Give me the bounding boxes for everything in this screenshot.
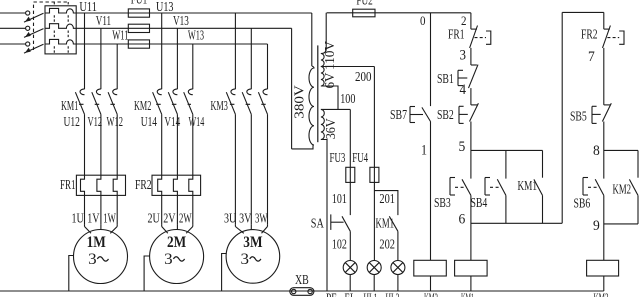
wire xyxy=(176,114,178,175)
svg-text:110V: 110V xyxy=(322,41,337,70)
svg-text:SB1: SB1 xyxy=(437,71,454,86)
svg-text:KM2: KM2 xyxy=(134,98,151,113)
svg-text:KM1: KM1 xyxy=(461,291,474,297)
svg-text:3W: 3W xyxy=(255,211,268,226)
plug contact circle pole 1 xyxy=(26,11,30,15)
wire 102 SA to lamp EL xyxy=(349,231,351,260)
breaker pole 3 thermal-magnetic element xyxy=(45,39,76,44)
wire node 4 xyxy=(470,88,472,105)
FR1 heater element xyxy=(97,175,101,225)
node 9 horizontal xyxy=(604,223,638,225)
FR1 heater element xyxy=(81,175,85,225)
wire coil KM3 to return xyxy=(603,276,605,291)
svg-text:SB5: SB5 xyxy=(570,109,587,124)
wire 202 xyxy=(397,231,399,260)
button SB1 (NC) xyxy=(471,64,477,66)
node 6 horizontal xyxy=(471,222,562,224)
svg-text:W12: W12 xyxy=(107,114,124,129)
svg-text:36V: 36V xyxy=(323,118,338,139)
wire rail to node 6 (right feeder) xyxy=(561,12,563,223)
svg-text:3: 3 xyxy=(241,251,250,268)
branch KM2 aux wire xyxy=(637,150,639,177)
switch SA xyxy=(330,214,332,230)
3-phase supply line L3 xyxy=(0,43,26,45)
linkage drop to breaker mechanism xyxy=(53,2,55,6)
wire coil KM1 to return xyxy=(470,276,472,291)
KM1 linkage dashes xyxy=(79,103,115,105)
button SB7 xyxy=(409,107,411,123)
wire node 7 column top xyxy=(603,12,605,29)
branch wire 201 to KM1 contact xyxy=(374,191,398,216)
branch SB4 lower wire xyxy=(505,195,507,223)
wire drop to KM1 pole 2 xyxy=(100,28,102,89)
node 5 horizontal xyxy=(471,149,543,151)
svg-text:3V: 3V xyxy=(239,211,252,226)
svg-text:5: 5 xyxy=(459,139,466,155)
svg-text:W11: W11 xyxy=(112,28,128,43)
svg-text:6: 6 xyxy=(459,212,466,228)
svg-text:1M: 1M xyxy=(87,234,106,251)
contact FR1 (NC thermal) xyxy=(471,28,477,30)
3-phase supply line L2 xyxy=(0,27,26,29)
circuit breaker QF box xyxy=(45,6,76,54)
wire xyxy=(234,114,236,224)
plug contact circle pole 2 xyxy=(26,26,30,30)
wire node 1 down to KM2 coil xyxy=(430,122,432,261)
branch SB4 wire xyxy=(505,150,507,178)
wire 36V top terminal xyxy=(321,108,350,110)
wire 36V bottom return to earth bus xyxy=(321,140,327,292)
primary feed wire from V13 xyxy=(291,28,293,149)
fuse FU1 (three fuses) xyxy=(128,9,149,17)
bottom earth-return bus xyxy=(0,290,604,292)
wire node 6 column xyxy=(470,195,472,260)
svg-text:V11: V11 xyxy=(96,13,111,28)
wire node 9 column xyxy=(603,195,605,260)
wire xyxy=(116,114,118,175)
svg-text:FU4: FU4 xyxy=(352,150,368,165)
wire 110V top terminal to control rail xyxy=(321,13,326,54)
svg-text:1W: 1W xyxy=(103,211,116,226)
svg-text:FU1: FU1 xyxy=(131,0,147,7)
thermal relay FR2 heater box xyxy=(152,175,201,195)
svg-text:2W: 2W xyxy=(179,211,192,226)
fuse FU3 xyxy=(346,167,355,182)
wire drop to KM3 pole 3 xyxy=(267,44,269,89)
svg-text:V13: V13 xyxy=(173,13,189,28)
wire drop to KM2 pole 2 xyxy=(176,28,178,89)
svg-text:V12: V12 xyxy=(88,114,103,129)
svg-text:2U: 2U xyxy=(148,211,161,226)
svg-text:SB6: SB6 xyxy=(574,196,591,211)
svg-text:200: 200 xyxy=(355,69,372,84)
svg-text:HL1: HL1 xyxy=(364,291,378,297)
svg-text:3: 3 xyxy=(88,251,97,268)
wire drop to KM1 pole 1 xyxy=(84,13,86,89)
transformer primary winding 380V xyxy=(309,66,314,145)
button SB6 (NO) xyxy=(595,179,604,195)
svg-text:SB7: SB7 xyxy=(390,107,407,122)
branch KM2 aux lower wire xyxy=(637,195,639,224)
motor 2M frame earth wire xyxy=(144,256,150,291)
FR2 heater element xyxy=(189,175,193,225)
contactor KM1 main contacts xyxy=(80,89,85,95)
rail segment to FR2 xyxy=(562,11,604,13)
wire drop to KM2 pole 3 xyxy=(192,44,194,89)
contactor KM3 main contacts xyxy=(231,89,236,95)
motor 2M leads xyxy=(161,225,163,227)
lamp HL2 xyxy=(391,261,405,275)
control rail from FU2 xyxy=(327,12,471,14)
svg-text:FR2: FR2 xyxy=(135,177,152,192)
thermal relay FR1 heater box xyxy=(76,175,125,195)
svg-text:KM1: KM1 xyxy=(518,178,538,193)
switch linkage dashed line xyxy=(34,2,70,50)
svg-text:3U: 3U xyxy=(224,211,237,226)
svg-text:PE: PE xyxy=(326,291,337,297)
svg-text:380V: 380V xyxy=(292,85,307,119)
KM2 linkage dashes xyxy=(156,103,191,105)
KM3 linkage dashes xyxy=(230,103,266,105)
svg-text:W13: W13 xyxy=(188,28,204,43)
svg-text:XB: XB xyxy=(295,272,309,287)
branch KM1 aux lower wire xyxy=(542,195,544,223)
motor 2M xyxy=(150,230,204,284)
svg-text:KM3: KM3 xyxy=(594,291,609,297)
wire node 3 xyxy=(470,48,472,65)
svg-text:V14: V14 xyxy=(164,114,180,129)
FR2 heater element xyxy=(158,175,162,225)
contact KM1 aux (lamp circuit) xyxy=(389,216,398,231)
svg-text:KM2: KM2 xyxy=(424,291,438,297)
svg-text:EL: EL xyxy=(345,291,356,297)
contact KM1 aux (seal-in) xyxy=(534,179,543,195)
FR1 heater element xyxy=(113,175,117,225)
coil KM3 xyxy=(587,260,619,276)
wire node 2 xyxy=(470,13,472,29)
wire xyxy=(100,114,102,175)
wire xyxy=(84,114,86,175)
wire 200 down through FU4 xyxy=(373,67,375,261)
node 8 horizontal xyxy=(604,149,638,151)
svg-text:4: 4 xyxy=(460,82,467,98)
terminal link XB xyxy=(290,288,314,296)
transformer core xyxy=(317,45,319,142)
coil KM2 xyxy=(414,260,447,276)
svg-text:U14: U14 xyxy=(141,114,157,129)
breaker pole 2 thermal-magnetic element xyxy=(45,24,76,29)
svg-text:3: 3 xyxy=(164,251,173,268)
motor 3M leads xyxy=(234,225,236,227)
button SB5 (NC) xyxy=(604,104,611,106)
wire drop to KM2 pole 1 xyxy=(161,13,163,89)
primary bottom connection xyxy=(292,145,313,149)
svg-text:FU2: FU2 xyxy=(356,0,372,8)
svg-text:W14: W14 xyxy=(189,114,205,129)
contact FR2 (NC thermal) xyxy=(604,28,610,30)
wire coil KM2 to return xyxy=(430,276,432,291)
svg-text:2M: 2M xyxy=(167,234,186,251)
svg-text:SB3: SB3 xyxy=(434,195,451,210)
svg-text:201: 201 xyxy=(379,191,395,206)
svg-text:1U: 1U xyxy=(72,211,85,226)
branch KM1 aux wire xyxy=(542,150,544,177)
wire tap 200 (110V/6V junction) xyxy=(321,66,375,68)
plug contact circle pole 3 xyxy=(26,42,30,46)
svg-text:U11: U11 xyxy=(79,0,97,14)
wire node 5 column xyxy=(470,122,472,179)
contact KM2 aux (seal-in) xyxy=(629,179,638,195)
svg-text:HL2: HL2 xyxy=(386,291,400,297)
svg-text:FR2: FR2 xyxy=(581,26,598,41)
svg-text:3: 3 xyxy=(460,48,467,64)
switch blade with arrowhead pole 1 xyxy=(24,13,44,22)
wire node 8 column xyxy=(603,122,605,179)
svg-text:KM1: KM1 xyxy=(376,216,395,231)
svg-text:100: 100 xyxy=(340,91,355,106)
wire node 0 column xyxy=(430,13,432,106)
svg-text:SA: SA xyxy=(311,216,324,231)
lamp HL1 xyxy=(367,261,381,275)
svg-text:7: 7 xyxy=(588,49,595,65)
motor 1M xyxy=(74,230,128,284)
wire xyxy=(267,114,269,224)
button SB4 (NO) xyxy=(497,179,506,195)
button SB2 (NC) xyxy=(471,104,478,106)
primary feed wire from U13 xyxy=(311,13,313,66)
coil KM1 xyxy=(455,260,488,276)
wire node 7 xyxy=(603,48,605,105)
wire drop to KM1 pole 3 xyxy=(116,44,118,89)
wire drop to KM3 pole 1 xyxy=(234,13,236,89)
motor 1M leads xyxy=(84,225,86,227)
svg-text:SB4: SB4 xyxy=(471,195,488,210)
svg-text:KM2: KM2 xyxy=(613,182,632,197)
3-phase supply line L1 xyxy=(0,12,26,14)
svg-text:1V: 1V xyxy=(87,211,100,226)
svg-text:FU3: FU3 xyxy=(330,150,346,165)
secondary winding 110V xyxy=(321,54,324,67)
wire 36V-top down through FU3 to SA xyxy=(349,109,351,215)
fuse FU2 xyxy=(353,9,375,17)
wire xyxy=(161,114,163,175)
wire xyxy=(192,114,194,175)
breaker pole 1 thermal-magnetic element xyxy=(45,8,76,13)
svg-text:202: 202 xyxy=(379,237,395,252)
bus W11-W13 bottom phase line xyxy=(76,43,267,45)
motor 3M frame earth wire xyxy=(222,254,227,292)
secondary winding 6V xyxy=(321,67,324,87)
svg-text:2V: 2V xyxy=(163,211,176,226)
svg-text:KM3: KM3 xyxy=(211,98,228,113)
fuse FU4 xyxy=(370,167,379,182)
svg-text:1: 1 xyxy=(421,143,427,159)
svg-text:SB2: SB2 xyxy=(437,107,454,122)
motor 1M frame earth wire xyxy=(69,256,74,292)
svg-text:0: 0 xyxy=(420,14,426,28)
svg-text:U12: U12 xyxy=(64,114,80,129)
secondary winding 36V xyxy=(321,109,324,139)
svg-text:102: 102 xyxy=(332,237,347,252)
button SB3 (NO) xyxy=(462,179,471,195)
svg-text:101: 101 xyxy=(332,191,347,206)
svg-text:FR1: FR1 xyxy=(60,177,76,192)
FR2 heater element xyxy=(173,175,177,225)
bus U11-U13 top phase line xyxy=(76,12,312,14)
motor 3M xyxy=(226,230,280,284)
svg-text:8: 8 xyxy=(593,143,600,159)
svg-text:U13: U13 xyxy=(156,0,174,14)
wire tap 100 (6V bottom) xyxy=(321,86,338,109)
lamp EL xyxy=(343,261,357,275)
contactor KM2 main contacts xyxy=(157,89,161,95)
svg-text:KM1: KM1 xyxy=(61,98,78,113)
switch blade with arrowhead pole 3 xyxy=(24,44,44,53)
wire xyxy=(250,114,252,224)
svg-text:9: 9 xyxy=(593,218,600,234)
svg-text:3M: 3M xyxy=(243,234,262,251)
bus V11-V13 middle phase line xyxy=(76,27,291,29)
svg-text:FR1: FR1 xyxy=(448,26,465,41)
wire drop to KM3 pole 2 xyxy=(250,28,252,89)
switch blade with arrowhead pole 2 xyxy=(24,29,44,38)
